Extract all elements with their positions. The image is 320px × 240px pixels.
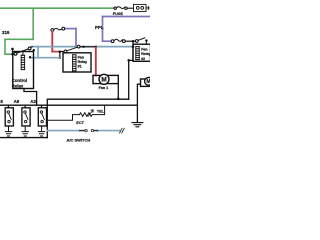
fan relay 2 contact [135, 38, 147, 44]
svg-text:Fan: Fan [141, 48, 147, 52]
svg-text:M: M [101, 77, 106, 84]
svg-text:A9: A9 [14, 99, 20, 104]
node J6 [132, 40, 135, 43]
ground under A8 [5, 126, 11, 136]
breaker S2 [51, 27, 65, 31]
switch box A3 [38, 105, 46, 126]
motor fan 1 [93, 74, 118, 84]
motor fan 2 [141, 77, 153, 86]
wire fan2 to ground [137, 84, 140, 122]
ECU terminal rail [0, 104, 137, 106]
breaker S3 purple feed [111, 39, 135, 42]
control relay coil [21, 52, 24, 70]
svg-text:Relay: Relay [12, 84, 24, 89]
wire PPL purple rail [65, 17, 150, 47]
node J4 [95, 46, 97, 48]
switch box A8 [5, 105, 13, 126]
svg-text:Fan 1: Fan 1 [99, 86, 109, 90]
svg-text:Relay: Relay [78, 60, 88, 64]
node J3 [82, 46, 84, 48]
svg-text:M: M [146, 79, 150, 85]
control relay box [13, 52, 34, 89]
resistor ECT [47, 105, 104, 120]
svg-text:#2: #2 [141, 57, 145, 61]
svg-text:Control: Control [12, 78, 27, 83]
ground right [132, 123, 143, 127]
fan relay 2 coil [136, 47, 139, 60]
node J7 blue end [132, 46, 135, 49]
svg-text:ECT: ECT [76, 121, 84, 125]
svg-text:FUSE: FUSE [113, 12, 124, 16]
svg-text:Fan: Fan [78, 55, 84, 59]
A/C switch contacts [85, 129, 94, 131]
blue vertical joint [37, 47, 39, 58]
fan relay 1 contact [61, 45, 96, 53]
svg-text:8: 8 [0, 99, 3, 104]
node J1 [59, 50, 62, 53]
svg-text:Relay: Relay [141, 52, 150, 56]
A/C switch lead stubs [80, 130, 98, 132]
connector double slash [120, 128, 125, 133]
switch box A9 [22, 105, 30, 126]
wire red supply [52, 32, 59, 52]
svg-text:#1: #1 [78, 65, 82, 69]
wire red to fan 1 [95, 48, 97, 76]
node J8 [127, 59, 130, 62]
wire bottom rail [0, 137, 47, 139]
control relay contact [11, 47, 32, 56]
svg-text:319: 319 [2, 30, 10, 35]
ground under A9 [22, 126, 28, 136]
connector box at battery [134, 4, 150, 11]
node at control relay blue output [29, 56, 31, 58]
A/C switch wire blue [47, 130, 119, 132]
node at control relay box corner [33, 49, 35, 51]
ground under A3 [38, 126, 44, 136]
wire relay2 return [129, 60, 133, 99]
fan relay 2 box [133, 41, 151, 61]
fan relay 1 box [63, 53, 91, 72]
svg-text:A3: A3 [30, 99, 36, 104]
svg-text:YEL: YEL [97, 109, 105, 113]
svg-text:PPL: PPL [95, 25, 104, 30]
node J2 [59, 56, 62, 59]
svg-text:A/C SWITCH: A/C SWITCH [67, 138, 91, 143]
node J5 [117, 98, 120, 101]
wire joint J1-J2 [59, 52, 61, 58]
fan relay 1 coil [73, 55, 76, 71]
control relay second blue wire [30, 57, 60, 59]
control relay coil feed wire blue upper [31, 46, 133, 48]
wire 319 green supply rail [0, 8, 114, 54]
wire relay to ECU rail [24, 89, 37, 106]
rail R motor return [47, 99, 128, 137]
fuse FUSE [114, 7, 134, 10]
wire fan1 to rail [117, 84, 119, 100]
